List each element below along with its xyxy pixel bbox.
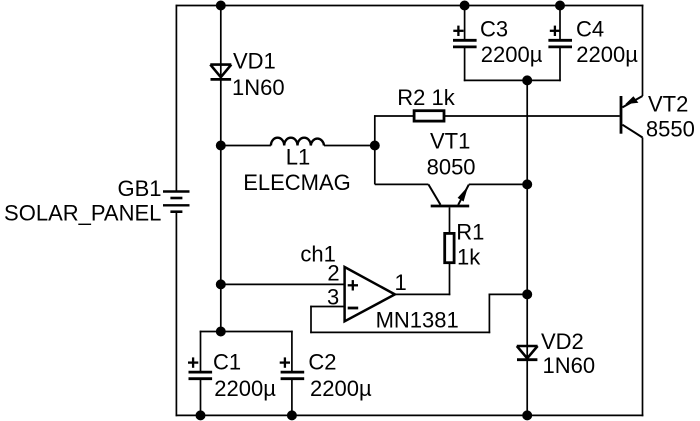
wire bottom rail (176, 414, 644, 416)
wire right rail upper (642, 5, 644, 96)
wire R1 bottom lead (449, 264, 451, 296)
svg-text:2: 2 (327, 260, 339, 285)
wire mid vertical to VD2 and bottom (526, 80, 528, 415)
svg-text:8050: 8050 (427, 155, 476, 180)
svg-text:C1: C1 (213, 349, 241, 374)
node VT1 emitter / mid vertical (522, 179, 532, 189)
node C1 bottom (196, 410, 206, 420)
svg-text:3: 3 (327, 284, 339, 309)
wire R2 left drop (374, 115, 376, 184)
svg-text:2200µ: 2200µ (481, 42, 543, 67)
wire VT1 collector horizontal (375, 183, 429, 185)
capacitor C4 (548, 26, 572, 47)
wire left rail upper (175, 5, 177, 192)
svg-text:R1: R1 (456, 220, 484, 245)
wire feedback vertical up (488, 294, 490, 334)
node L1 left (216, 141, 226, 151)
svg-text:1: 1 (395, 270, 407, 295)
svg-text:MN1381: MN1381 (376, 307, 459, 332)
svg-text:2200µ: 2200µ (576, 42, 638, 67)
svg-text:C3: C3 (480, 16, 508, 41)
wire C1 bottom lead (200, 380, 202, 416)
wire C4 bottom lead (559, 48, 561, 81)
wire op-amp pin2 input (221, 283, 345, 285)
wire op-amp output to R1 (395, 293, 450, 295)
wire L1 right segment (324, 145, 375, 147)
node pin2 / VD1 branch (216, 279, 226, 289)
svg-text:VD2: VD2 (541, 329, 584, 354)
resistor R1 (445, 233, 454, 262)
wire feedback bottom horizontal (310, 331, 490, 333)
svg-text:C4: C4 (576, 16, 604, 41)
node output / mid vertical (522, 289, 532, 299)
wire C2 bottom lead (291, 380, 293, 416)
svg-text:VT2: VT2 (648, 92, 688, 117)
node C2 bottom (287, 410, 297, 420)
diode VD1 (210, 65, 231, 80)
battery GB1 (163, 192, 190, 212)
svg-text:VD1: VD1 (233, 48, 276, 73)
wire VD1 branch vertical (220, 6, 222, 332)
wire pin3 stub down (310, 306, 312, 334)
svg-text:1N60: 1N60 (232, 75, 285, 100)
wire C1 top lead (200, 331, 202, 371)
diode VD2 (517, 346, 538, 360)
svg-text:C2: C2 (308, 349, 336, 374)
node VD2 bottom (522, 410, 532, 420)
svg-text:2200µ: 2200µ (214, 376, 276, 401)
capacitor C2 (280, 357, 305, 378)
wire right rail lower (642, 138, 644, 417)
wire feedback to mid vertical (489, 293, 528, 295)
svg-text:VT1: VT1 (430, 128, 470, 153)
node top rail / VD1 (216, 1, 226, 11)
wire C3 bottom lead (464, 48, 466, 81)
wire C3 top lead (464, 6, 466, 40)
wire R2 row to VT2 base (374, 115, 620, 117)
node top rail / C4 (555, 1, 565, 11)
svg-text:1N60: 1N60 (543, 353, 596, 378)
svg-text:ELECMAG: ELECMAG (243, 170, 351, 195)
wire left rail lower (175, 212, 177, 417)
capacitor C1 (188, 357, 212, 378)
node C1/C2 top junction (216, 327, 226, 337)
svg-text:1k: 1k (457, 244, 481, 269)
svg-text:8550: 8550 (646, 117, 695, 142)
wire VT1 emitter horizontal (469, 183, 527, 185)
node top rail / C3 (460, 1, 470, 11)
inductor L1 (271, 138, 324, 146)
transistor VT1 (428, 184, 469, 206)
capacitor C3 (453, 26, 477, 47)
transistor VT2 (621, 96, 643, 138)
resistor R2 (414, 111, 444, 121)
wire C4 top lead (559, 6, 561, 40)
wire L1 left segment (221, 145, 271, 147)
wire top rail (176, 5, 644, 7)
node L1 right (370, 141, 380, 151)
wire C2 top lead (291, 331, 293, 371)
svg-text:2200µ: 2200µ (310, 376, 372, 401)
wire C1/C2 top link (200, 331, 293, 333)
wire C3/C4 bottom link (464, 79, 561, 81)
svg-text:GB1: GB1 (117, 176, 161, 201)
svg-text:SOLAR_PANEL: SOLAR_PANEL (4, 200, 161, 225)
wire op-amp pin3 input (310, 306, 344, 308)
wire VT1 base to R1 (449, 207, 451, 232)
node C3/C4 bottom junction (522, 75, 532, 85)
op-amp U1 MN1381 (345, 267, 395, 321)
svg-text:L1: L1 (286, 145, 310, 170)
svg-text:R2 1k: R2 1k (397, 85, 455, 110)
